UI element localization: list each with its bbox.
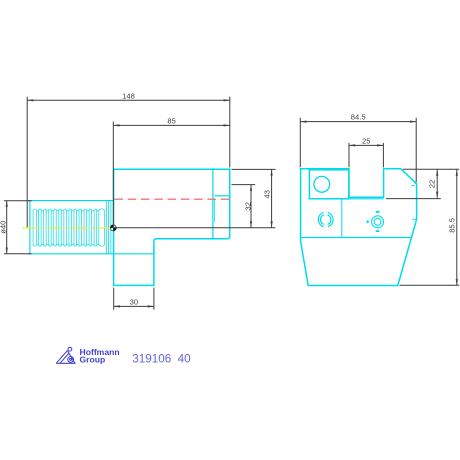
internal vertical below seat <box>341 199 343 237</box>
dim 148 <box>27 99 230 101</box>
dim 84.5 extension lines <box>299 118 301 167</box>
svg-text:43: 43 <box>263 190 272 198</box>
dim phi40 <box>6 201 8 254</box>
shank serration teeth <box>33 209 105 246</box>
shared top extension (22 and 85.5) <box>403 168 459 170</box>
dim 25 extension lines <box>348 143 350 168</box>
dim 85 <box>113 124 230 126</box>
dim phi40 extension lines <box>4 200 32 202</box>
center point marker <box>110 225 116 231</box>
svg-text:85.5: 85.5 <box>448 218 457 233</box>
dim 43 <box>271 169 273 227</box>
dim 22 bottom extension <box>386 198 441 200</box>
seat bottom line <box>309 198 383 200</box>
front view outline <box>301 169 417 286</box>
yellow shank centerline <box>22 227 111 229</box>
dim 85.5 <box>456 170 458 286</box>
dim 43 extension line <box>232 168 276 170</box>
dim 84.5 <box>300 121 416 123</box>
dim 32 extension line <box>232 184 256 186</box>
dim 85 left extension <box>112 122 114 228</box>
slotted ring symbol (clamping screw) <box>318 212 333 227</box>
svg-text:22: 22 <box>427 180 436 188</box>
body internal vertical edge <box>212 169 214 239</box>
shank cylinder outline (phi40) <box>28 201 154 254</box>
Hoffmann Group logo mark <box>56 347 75 363</box>
clamp seat block <box>309 170 349 199</box>
dim 148 extension lines <box>26 97 28 228</box>
body outline left view <box>114 169 230 285</box>
svg-text:32: 32 <box>243 202 252 210</box>
svg-text:85: 85 <box>167 116 175 125</box>
bore silhouette line <box>214 195 229 197</box>
svg-text:ø40: ø40 <box>0 221 7 234</box>
dim 85.5 bottom extension <box>400 284 460 286</box>
centerline extension (shared 32/43 dims) <box>113 227 275 229</box>
dim 30 extension lines <box>113 288 115 310</box>
edge tick below chamfer <box>411 185 415 187</box>
edge tick at taper start <box>412 218 417 220</box>
svg-text:30: 30 <box>130 298 138 307</box>
internal horizontal edge <box>301 237 412 239</box>
shank collar lines <box>106 201 111 254</box>
red dashed bore centerline <box>114 198 229 200</box>
clamp screw hole circle <box>314 176 330 192</box>
set screw symbol <box>372 216 384 228</box>
dim 30 <box>114 305 154 307</box>
dim 22 <box>436 170 438 198</box>
svg-text:148: 148 <box>122 91 135 100</box>
svg-text:319106 40: 319106 40 <box>132 352 191 365</box>
svg-text:Group: Group <box>80 354 106 364</box>
dim 25 <box>349 144 383 146</box>
dim 32 <box>250 185 252 228</box>
svg-text:25: 25 <box>362 137 370 146</box>
svg-text:84.5: 84.5 <box>351 113 366 122</box>
